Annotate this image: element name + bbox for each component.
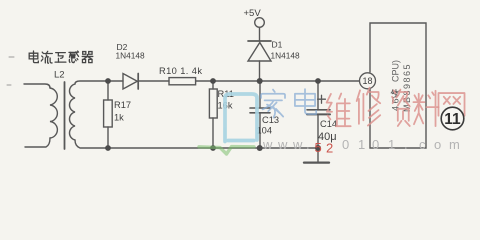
diode D1 xyxy=(248,27,271,81)
watermark xyxy=(7,57,465,156)
scan speck 2 xyxy=(7,84,11,86)
label 46V(waiCPU) rotated xyxy=(391,60,401,111)
svg-text:.: . xyxy=(306,137,310,152)
watermark cyan box glyph xyxy=(225,94,257,142)
svg-text:o: o xyxy=(434,137,441,152)
svg-text:R17: R17 xyxy=(114,100,131,110)
svg-text:C14: C14 xyxy=(320,119,337,129)
svg-text:CPU): CPU) xyxy=(391,60,401,82)
svg-text:C13: C13 xyxy=(262,115,279,125)
junction node D (C14 top) xyxy=(315,78,321,84)
svg-text:1: 1 xyxy=(388,137,395,152)
hanzi qi xyxy=(82,52,93,63)
svg-text:11: 11 xyxy=(444,111,461,128)
watermark hanzi dian (blue) xyxy=(295,89,316,114)
svg-text:D1: D1 xyxy=(272,40,283,50)
wire D2 to R10 xyxy=(138,80,169,82)
+5V terminal xyxy=(255,18,265,28)
junction node E (R17 bottom) xyxy=(105,145,111,151)
svg-text:w: w xyxy=(277,137,288,152)
watermark hanzi xiu (salmon) xyxy=(357,88,381,126)
svg-text:1k: 1k xyxy=(114,113,124,123)
hanzi wai in rotated label xyxy=(391,89,398,96)
junction node F (R11 bottom) xyxy=(210,145,216,151)
bottom rail xyxy=(108,147,318,149)
junction node C (D1/C13) xyxy=(257,78,263,84)
junction node G (C13 bottom) xyxy=(257,145,263,151)
resistor R11 xyxy=(209,81,217,148)
scan speck 1 xyxy=(9,56,14,58)
svg-text:MB89865: MB89865 xyxy=(402,63,412,112)
transformer L2 secondary winding xyxy=(69,81,108,148)
svg-text:R10 1. 4k: R10 1. 4k xyxy=(159,66,202,76)
svg-text:1N4148: 1N4148 xyxy=(116,51,145,61)
capacitor C14 xyxy=(307,81,330,148)
resistor R10 xyxy=(169,78,196,85)
hanzi dian xyxy=(29,51,38,63)
watermark url www.520101.com xyxy=(262,137,460,156)
transformer core xyxy=(64,82,66,149)
watermark hanzi wei (salmon) xyxy=(327,94,351,127)
transformer L2 primary winding xyxy=(24,84,57,147)
watermark hanzi wang (salmon) xyxy=(438,93,464,116)
svg-text:0: 0 xyxy=(372,137,379,152)
ground xyxy=(304,148,329,163)
svg-text:+5V: +5V xyxy=(244,8,262,19)
IC box MB89865 xyxy=(370,23,426,148)
hanzi hu xyxy=(55,53,66,62)
pin 18 circle xyxy=(360,73,376,89)
green highlighter squiggle xyxy=(199,147,254,154)
circled 11 xyxy=(441,107,464,130)
svg-text:5: 5 xyxy=(315,140,322,155)
watermark hanzi liao (salmon) xyxy=(413,91,438,126)
label dianliu huganqi (current transformer) xyxy=(29,51,93,63)
capacitor C13 xyxy=(250,81,270,148)
watermark hanzi zi (salmon) xyxy=(392,90,410,126)
svg-text:1: 1 xyxy=(358,137,365,152)
svg-text:18: 18 xyxy=(362,76,372,86)
wire top rail left xyxy=(108,80,123,82)
svg-text:1N4148: 1N4148 xyxy=(271,51,300,61)
svg-text:2: 2 xyxy=(326,141,333,156)
diode D2 xyxy=(123,74,138,90)
svg-text:L2: L2 xyxy=(54,70,65,81)
junction node H (C14 bottom / ground) xyxy=(315,145,321,151)
junction node B (R11 top) xyxy=(210,78,216,84)
svg-text:0: 0 xyxy=(342,137,349,152)
svg-text:.: . xyxy=(404,137,408,152)
wire top rail right xyxy=(196,80,360,82)
svg-text:w: w xyxy=(262,137,273,152)
resistor R17 xyxy=(104,81,113,148)
hanzi liu xyxy=(41,51,52,63)
hanzi gan xyxy=(69,51,79,63)
svg-text:m: m xyxy=(449,137,460,152)
watermark hanzi jia (blue) xyxy=(261,90,285,118)
svg-text:c: c xyxy=(419,137,426,152)
svg-text:w: w xyxy=(292,137,303,152)
junction node A (R17 top) xyxy=(105,78,111,84)
